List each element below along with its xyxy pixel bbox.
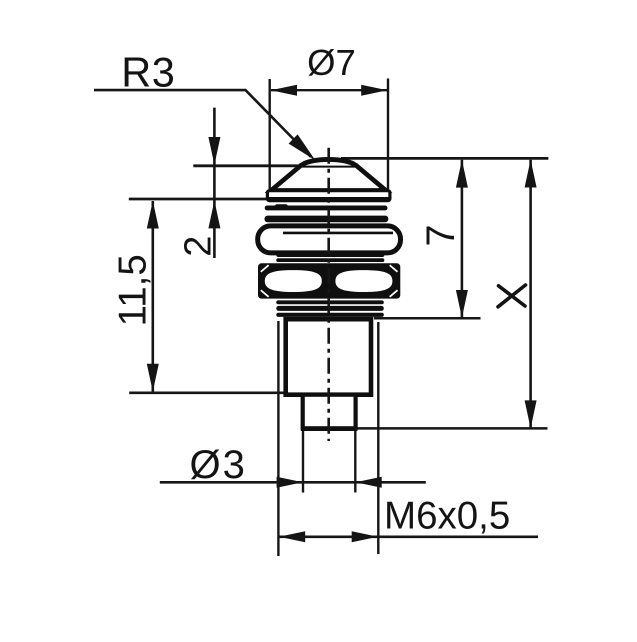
- node dia3 right-pointing arrow: [277, 477, 303, 488]
- wire dia7 left extension: [269, 79, 271, 191]
- node 11,5 bottom arrow: [147, 364, 159, 392]
- bottom pin: [303, 395, 356, 429]
- node M6 right arrow: [352, 531, 378, 542]
- wire M6 dimension line: [279, 535, 538, 538]
- wire ext line C (11,5 bottom): [129, 391, 285, 394]
- hex nut body: [258, 263, 400, 298]
- node 2-dim down arrow: [208, 137, 220, 165]
- node 2-dim up arrow: [208, 201, 220, 229]
- nut left facet lens: [265, 270, 322, 292]
- wire dia3 dimension line: [160, 481, 426, 484]
- dome cap R3: [301, 159, 356, 165]
- wire M6 left extension: [277, 321, 279, 556]
- node X bottom arrow: [525, 400, 537, 428]
- node M6 left arrow: [279, 531, 305, 542]
- node dia7 left arrow: [271, 85, 297, 96]
- label X: [498, 285, 526, 307]
- wire top right extension (dome top): [341, 157, 548, 160]
- thread rib below nut 3: [276, 313, 384, 317]
- wire ext line B (2 bottom / 11,5 top): [129, 198, 271, 201]
- wire dia7 dimension line: [271, 89, 388, 91]
- pin bottom thick edge: [301, 426, 357, 431]
- svg-text:Ø3: Ø3: [190, 443, 247, 487]
- node dia7 right arrow: [361, 85, 387, 96]
- flange bottom thick edge: [268, 197, 389, 201]
- svg-text:M6x0,5: M6x0,5: [384, 495, 510, 538]
- ring bar nub: [275, 204, 288, 208]
- wire pin left extension: [302, 431, 304, 493]
- thread rib above nut (upper): [276, 253, 384, 257]
- nut right facet lens: [335, 270, 392, 292]
- node 7 top arrow: [456, 160, 468, 188]
- wire R3 leader: [94, 90, 311, 157]
- wire 2-dimension vertical line: [213, 108, 216, 258]
- centerline (on top): [327, 148, 330, 441]
- thread rib above nut (lower): [276, 258, 384, 262]
- node dia3 left-pointing arrow: [356, 477, 382, 488]
- wire 7 bottom extension: [374, 317, 481, 320]
- wire 7-dimension line: [461, 160, 464, 318]
- o-ring inner top line: [283, 232, 393, 235]
- cone of lens: [271, 165, 386, 190]
- wire dia7 right extension: [387, 79, 389, 192]
- flange (dia 7): [267, 191, 390, 201]
- o-ring gasket: [258, 226, 401, 253]
- wire X bottom extension: [354, 427, 548, 430]
- svg-text:2: 2: [178, 236, 220, 257]
- svg-text:7: 7: [419, 225, 463, 247]
- svg-text:Ø7: Ø7: [307, 42, 356, 83]
- wire ext line A (2 top): [193, 164, 356, 167]
- svg-text:11,5: 11,5: [112, 254, 155, 326]
- node 7 bottom arrow: [456, 290, 468, 318]
- nut corner chamfer marks: [261, 265, 269, 272]
- wire 11,5 dimension line: [152, 201, 155, 392]
- svg-text:R3: R3: [121, 49, 175, 96]
- node 11,5 top arrow: [147, 201, 159, 229]
- node R3 arrowhead: [289, 134, 316, 160]
- wire pin right extension: [354, 431, 356, 493]
- wire M6 right extension: [377, 322, 379, 554]
- thread rib below nut 2: [276, 306, 384, 311]
- node X top arrow: [525, 160, 537, 188]
- ring bar 2 (washer): [265, 216, 389, 223]
- thread rib below nut 1: [276, 300, 384, 304]
- wire X dimension line: [529, 160, 532, 429]
- ring bar 1 under flange: [265, 206, 388, 211]
- body cylinder: [286, 319, 371, 395]
